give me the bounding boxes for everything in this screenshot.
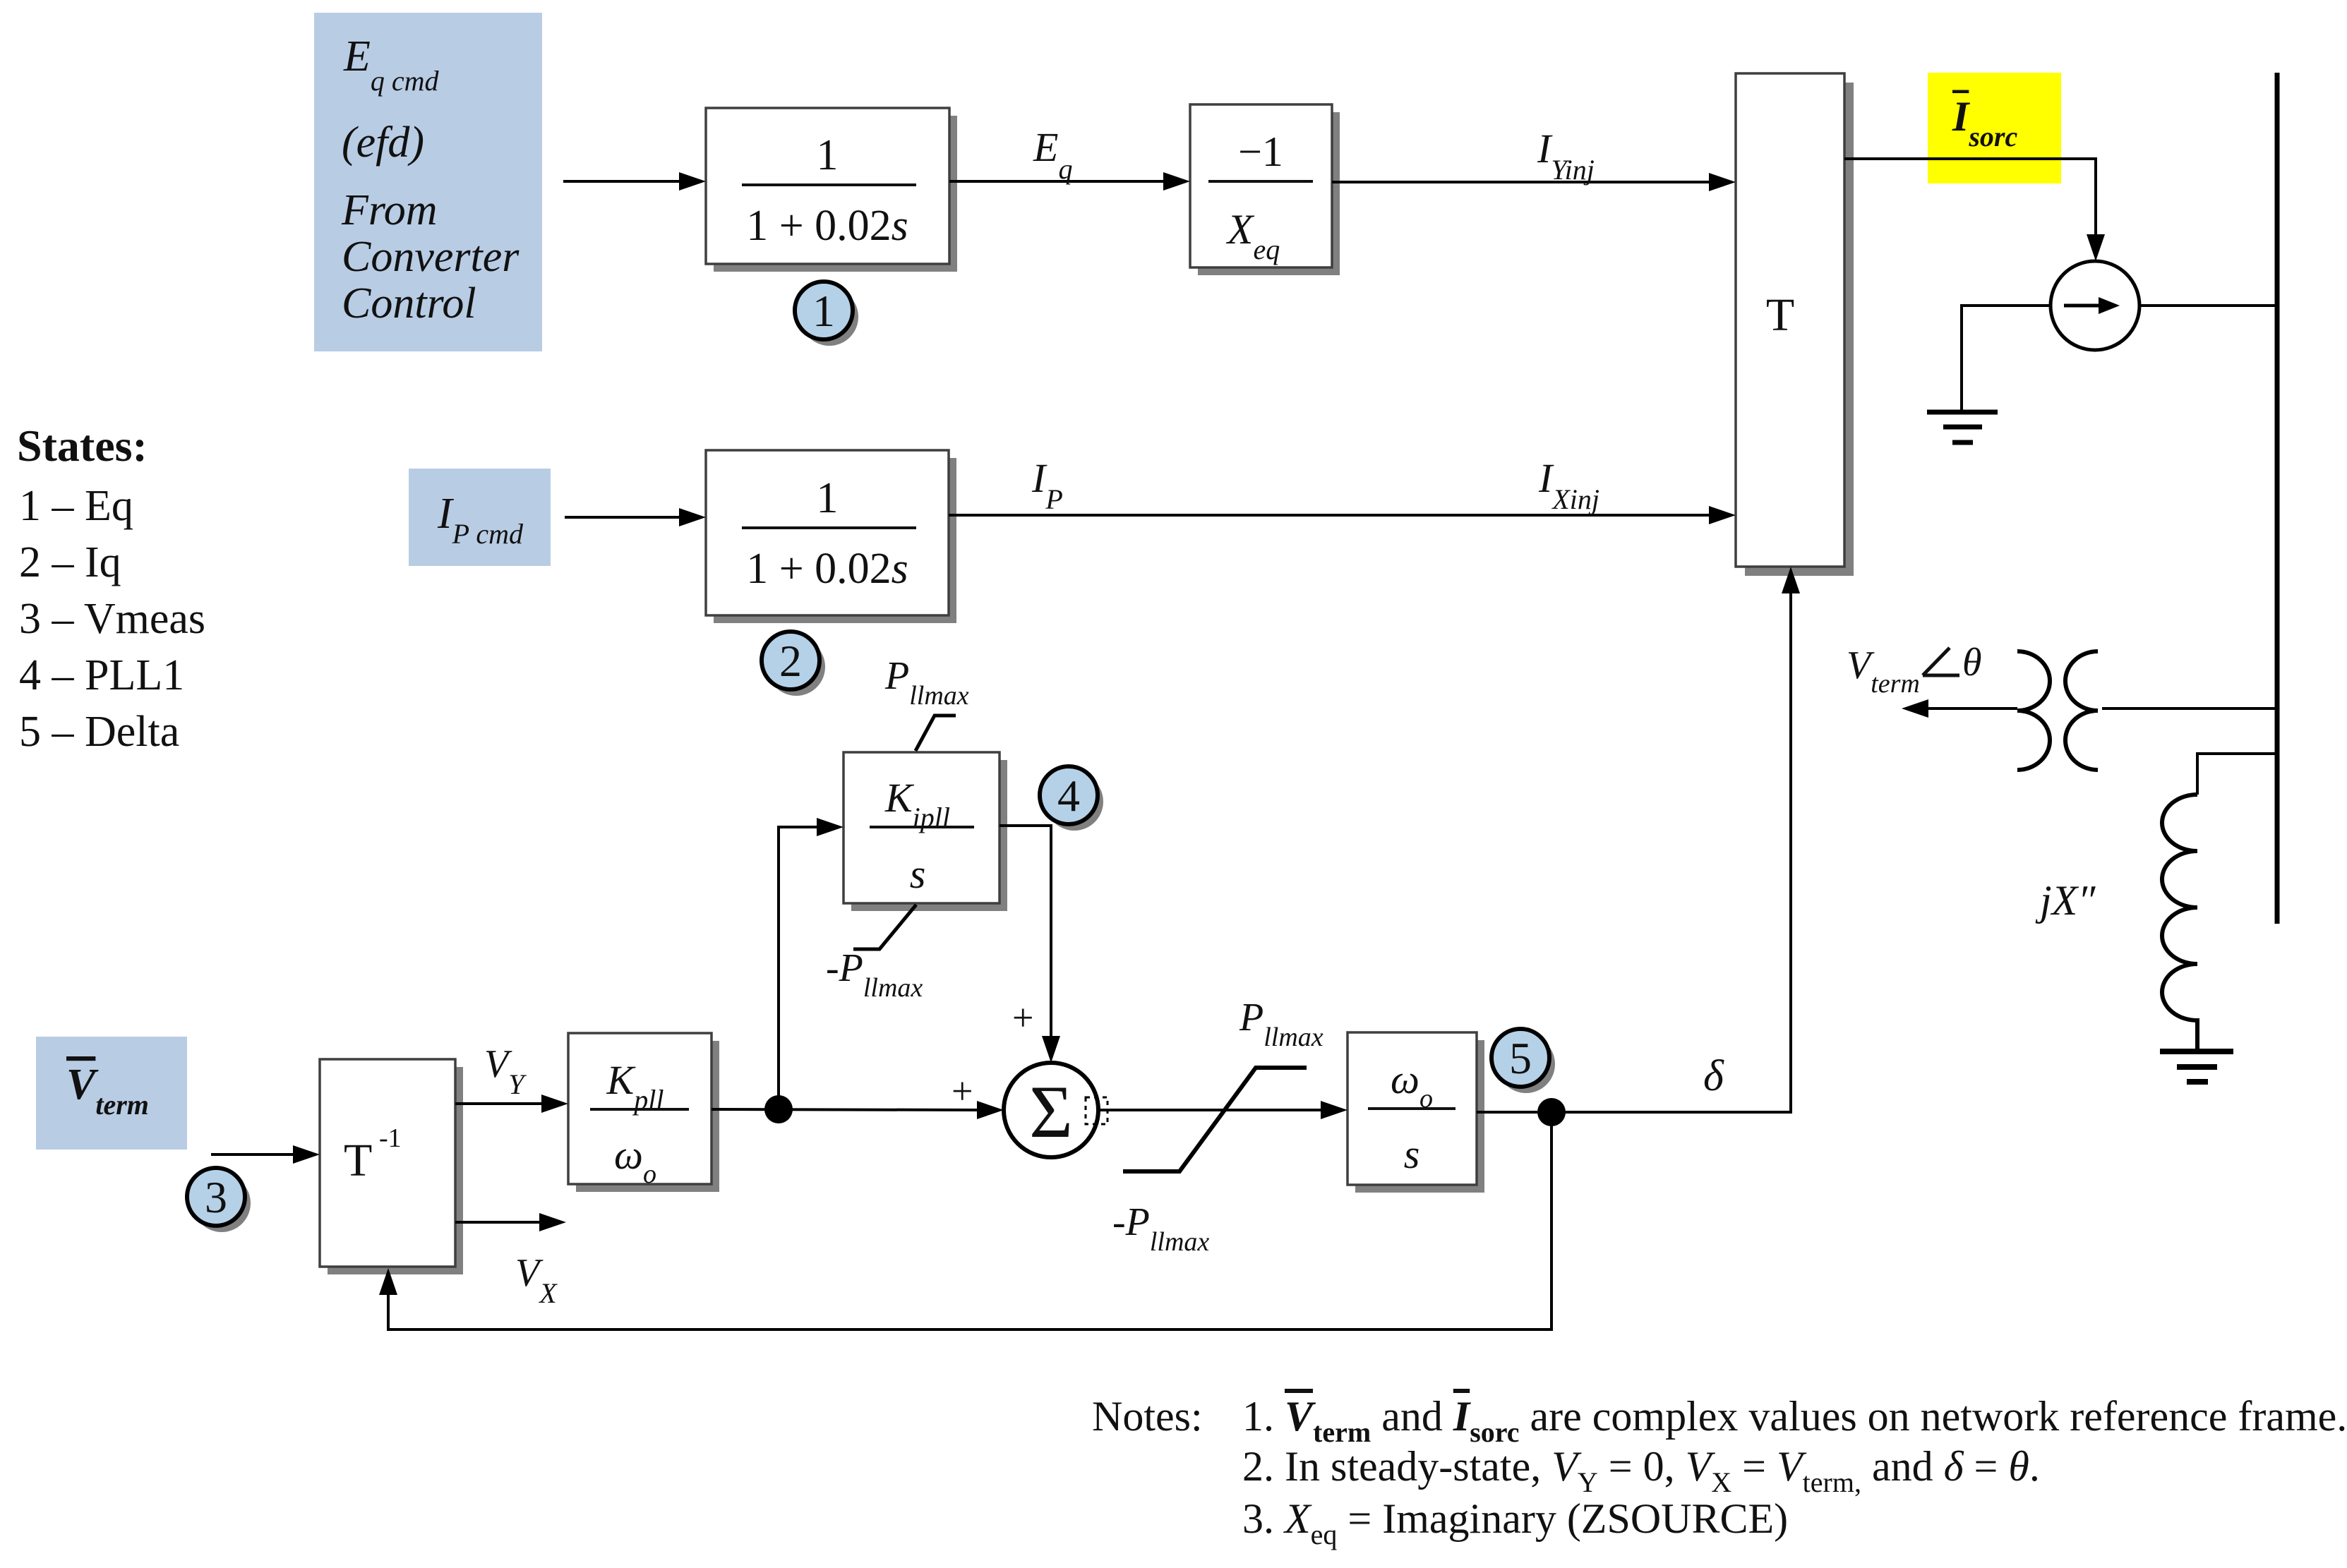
svg-text:1: 1 (817, 474, 839, 522)
label jX doubleprime (2035, 877, 2096, 924)
svg-text:jX″: jX″ (2035, 877, 2096, 924)
label IP (1031, 455, 1063, 515)
dashed artifact box (1086, 1097, 1108, 1124)
Vterm angle theta arrow (1902, 699, 2017, 718)
svg-text:s: s (910, 851, 926, 897)
label Eq (1033, 124, 1072, 185)
block 1/(1+0.02s) state 1 (706, 108, 957, 272)
label delta (1703, 1052, 1724, 1100)
input box Eq cmd (efd) From Converter Control (314, 13, 542, 351)
wire wo/s output to delta (1477, 567, 1800, 1112)
label IYinj (1537, 126, 1595, 186)
block Kipll/s (844, 752, 1007, 911)
svg-text:5 – Delta: 5 – Delta (19, 708, 179, 756)
svg-text:Converter: Converter (342, 233, 520, 281)
svg-text:1 + 0.02s: 1 + 0.02s (746, 545, 908, 593)
svg-text:3 – Vmeas: 3 – Vmeas (19, 595, 205, 643)
wire current source to bus (2139, 304, 2277, 307)
label Vterm angle theta (1847, 641, 1982, 699)
junction dot delta (1537, 1098, 1566, 1126)
svg-text:Control: Control (342, 279, 476, 327)
feedback wire delta to T^-1 (379, 1112, 1551, 1329)
wire sum to wo/s (1098, 1101, 1347, 1119)
wire bus to inductor (2197, 754, 2277, 795)
label Pllmax saturation (1239, 996, 1323, 1052)
saturation symbol (1123, 1068, 1307, 1171)
current source symbol (2051, 261, 2139, 350)
svg-text:1: 1 (812, 286, 835, 336)
svg-text:T: T (1766, 289, 1794, 341)
block wo/s (1347, 1032, 1484, 1193)
ground 1 (1927, 412, 1998, 442)
wire junction up into Kipll (779, 818, 844, 1109)
transformer coils (2017, 651, 2098, 770)
state circle 3 (193, 1174, 251, 1232)
state circle 5 (1497, 1035, 1555, 1093)
wire IP / IXinj (949, 506, 1736, 524)
wire Eq cmd into lag block (563, 172, 706, 191)
inductor jX coil (2162, 795, 2197, 1050)
svg-text:4 – PLL1: 4 – PLL1 (19, 651, 184, 699)
wire current source to ground (1962, 306, 2051, 412)
label VX (515, 1251, 558, 1309)
wire IYinj (1332, 173, 1736, 191)
input box IP cmd (409, 469, 551, 566)
wire VY (455, 1094, 568, 1113)
state circle 1 (800, 288, 858, 346)
svg-text:2 – Iq: 2 – Iq (19, 538, 121, 586)
block 1/(1+0.02s) state 2 (706, 450, 956, 623)
svg-text:(efd): (efd) (342, 119, 424, 167)
svg-text:θ: θ (1962, 641, 1982, 685)
svg-text:2: 2 (779, 636, 802, 686)
wire Vterm into T^-1 (211, 1145, 320, 1164)
yellow highlight Isorc (1928, 73, 2061, 183)
block -1/Xeq (1190, 104, 1340, 275)
svg-text:−1: −1 (1238, 128, 1283, 175)
wire Kpll output to junction and sum (712, 1101, 1004, 1119)
wire VX (455, 1213, 566, 1231)
block Kpll/wo (568, 1033, 719, 1192)
svg-text:-1: -1 (379, 1123, 402, 1153)
svg-text:1: 1 (817, 131, 839, 179)
svg-text:3: 3 (205, 1172, 227, 1222)
Kipll upper limit mark Pllmax (884, 654, 969, 751)
svg-text:1 + 0.02s: 1 + 0.02s (746, 202, 908, 250)
block T^-1 (320, 1059, 463, 1274)
svg-text:From: From (341, 186, 437, 234)
svg-text:δ: δ (1703, 1052, 1724, 1100)
svg-text:4: 4 (1057, 771, 1080, 821)
svg-text:+: + (1012, 996, 1033, 1039)
ground 2 (2160, 1051, 2233, 1082)
plus sign sum left input (952, 1070, 973, 1112)
network bus (2275, 73, 2280, 924)
wire bus to transformer (2102, 707, 2277, 710)
plus sign sum top input (1012, 996, 1033, 1039)
wire Kipll output down into sum (1000, 826, 1060, 1063)
block T (network transform) (1736, 73, 1854, 576)
Kipll lower limit mark -Pllmax (826, 905, 923, 1003)
svg-text:T: T (344, 1135, 372, 1186)
wire T output to current source (1844, 159, 2105, 261)
wire IP cmd into lag block (565, 508, 706, 526)
junction dot Kpll output (764, 1095, 793, 1123)
svg-text:Notes:: Notes: (1092, 1393, 1203, 1440)
summation circle (1004, 1063, 1098, 1157)
svg-text:Σ: Σ (1029, 1071, 1073, 1153)
input box Vterm (36, 1037, 187, 1150)
svg-text:5: 5 (1509, 1033, 1532, 1083)
notes text (1092, 1393, 2347, 1550)
svg-text:+: + (952, 1070, 973, 1112)
svg-text:States:: States: (17, 421, 148, 471)
label IXinj (1538, 455, 1599, 515)
state circle 2 (767, 638, 825, 696)
svg-text:s: s (1404, 1131, 1420, 1177)
svg-text:1 – Eq: 1 – Eq (19, 482, 133, 530)
label VY (484, 1042, 527, 1100)
wire Eq (949, 172, 1190, 191)
label -Pllmax saturation (1112, 1200, 1209, 1257)
states legend (17, 421, 205, 756)
state circle 4 (1045, 773, 1103, 831)
